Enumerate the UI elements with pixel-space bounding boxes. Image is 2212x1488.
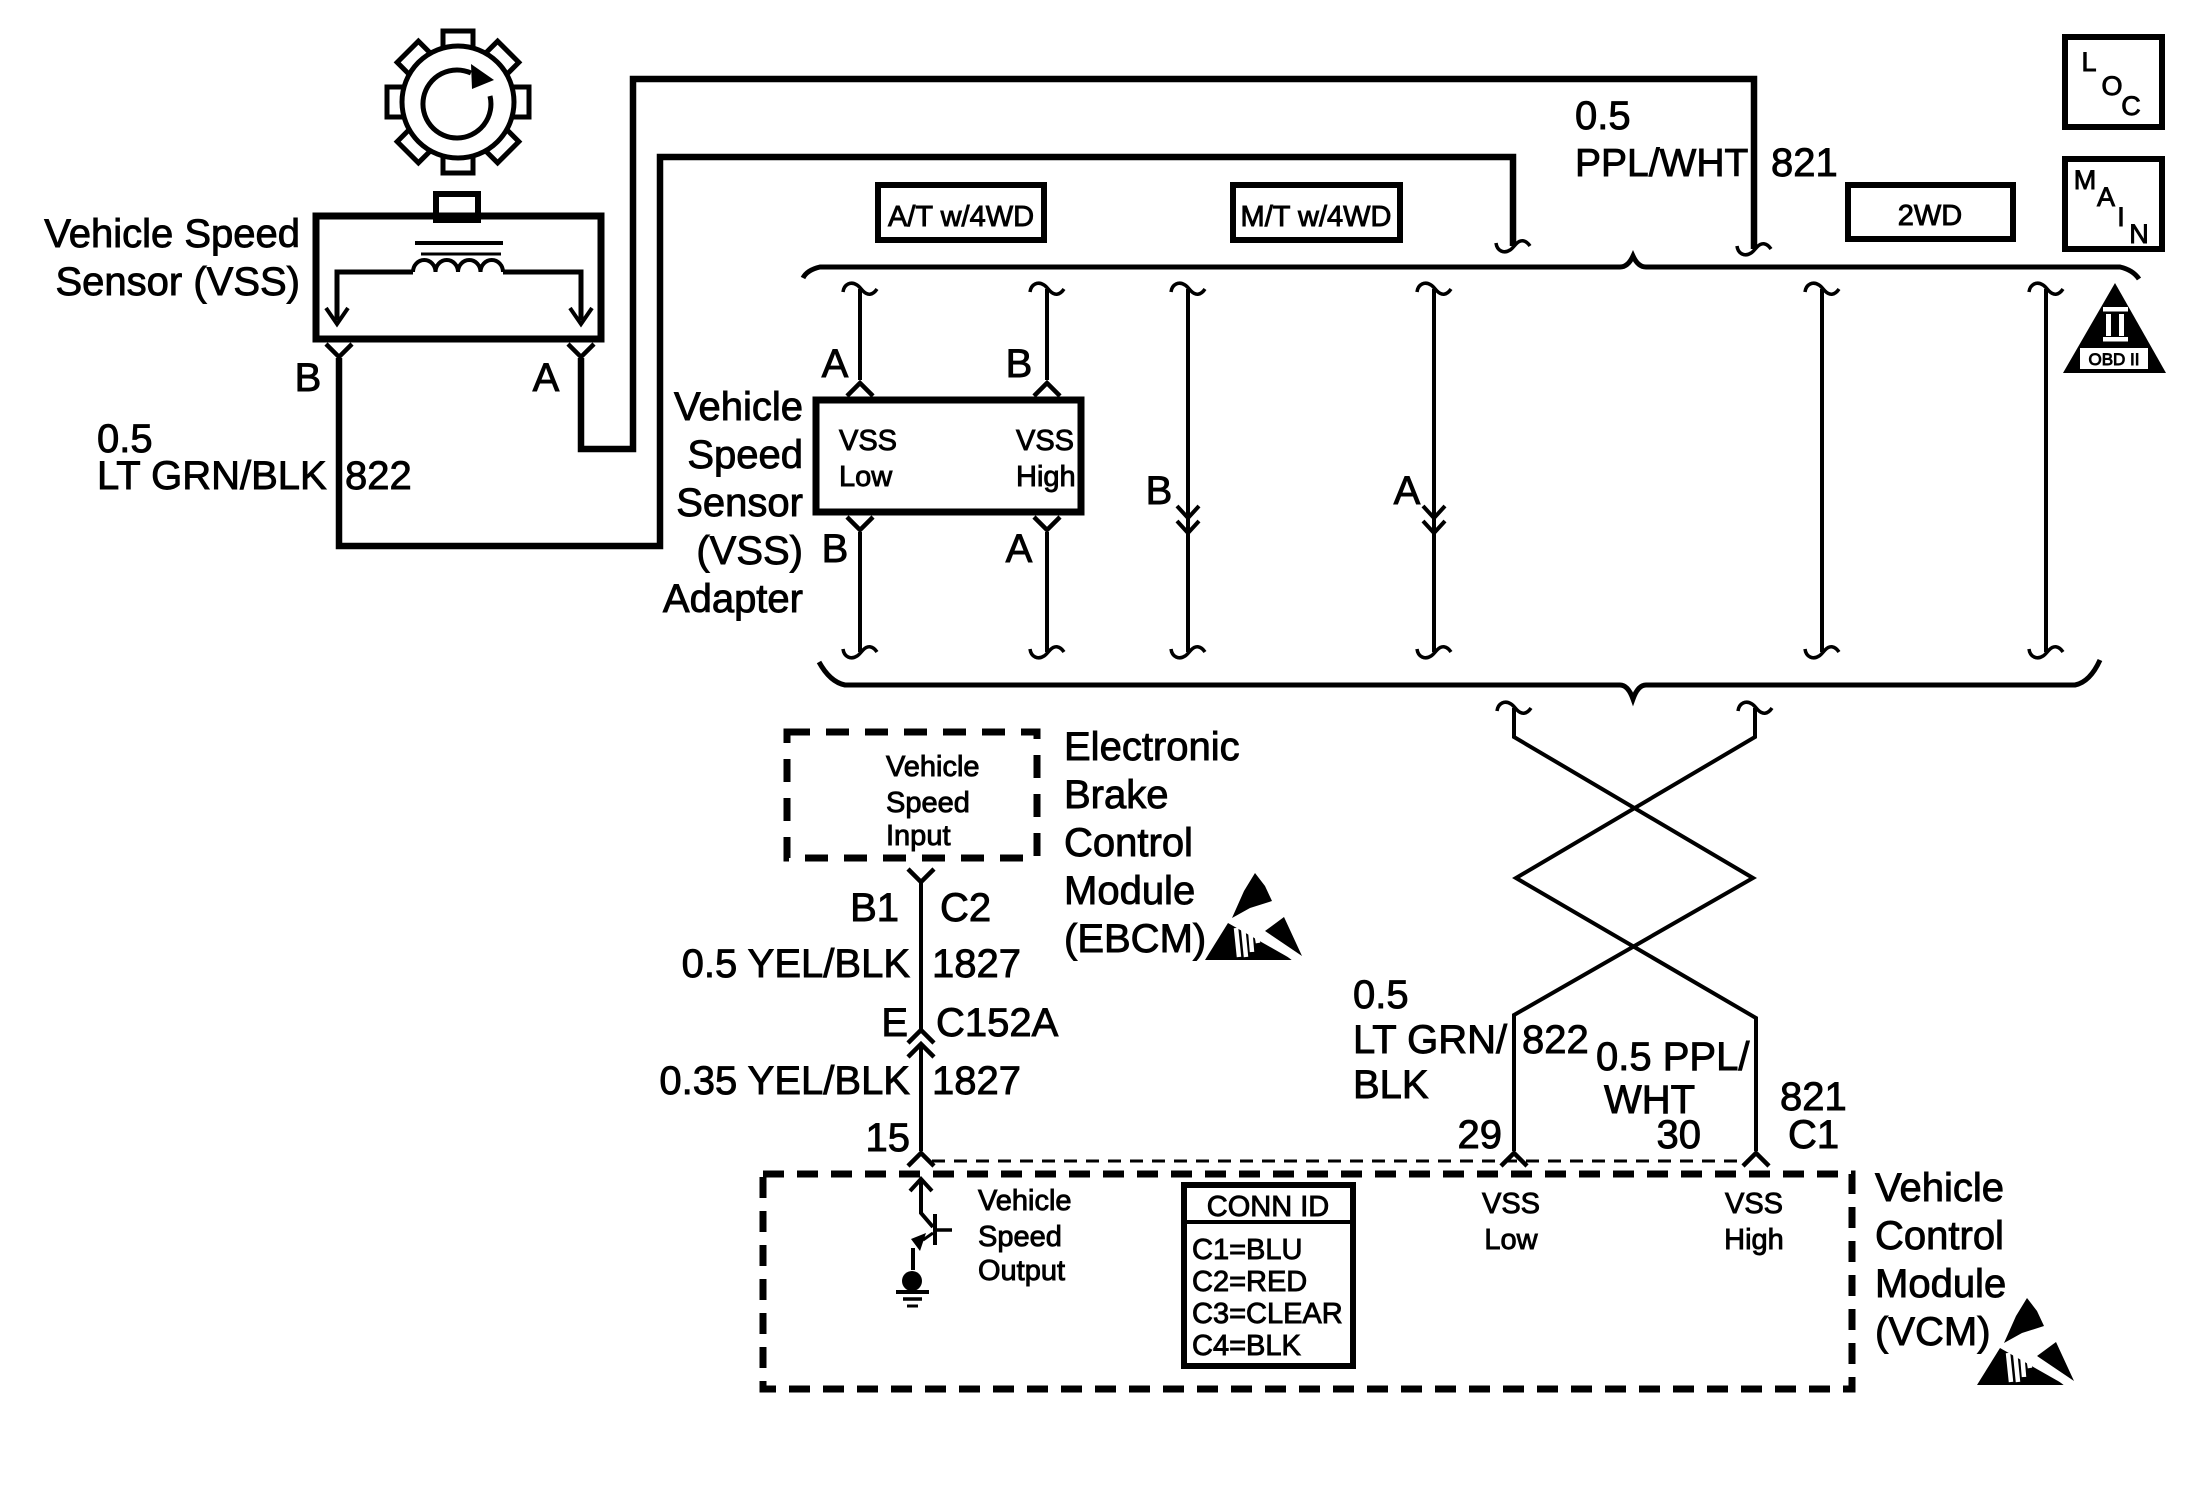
svg-text:B: B bbox=[1006, 342, 1033, 386]
svg-text:30: 30 bbox=[1657, 1113, 1702, 1157]
svg-text:C1=BLU: C1=BLU bbox=[1192, 1234, 1302, 1266]
svg-text:Sensor: Sensor bbox=[676, 481, 803, 525]
svg-text:C: C bbox=[2121, 91, 2141, 121]
svg-text:Vehicle: Vehicle bbox=[886, 751, 980, 783]
svg-text:M: M bbox=[2074, 165, 2097, 195]
svg-text:C4=BLK: C4=BLK bbox=[1192, 1330, 1301, 1362]
svg-text:15: 15 bbox=[866, 1116, 911, 1160]
svg-text:Vehicle Speed: Vehicle Speed bbox=[44, 212, 300, 256]
svg-text:Adapter: Adapter bbox=[663, 577, 803, 621]
svg-text:C2: C2 bbox=[940, 886, 991, 930]
svg-text:VSS: VSS bbox=[1725, 1188, 1783, 1220]
svg-text:High: High bbox=[1724, 1224, 1784, 1256]
svg-text:Speed: Speed bbox=[978, 1221, 1062, 1253]
svg-text:Electronic: Electronic bbox=[1064, 725, 1240, 769]
svg-text:Module: Module bbox=[1064, 869, 1195, 913]
svg-text:B1: B1 bbox=[850, 886, 899, 930]
svg-text:Speed: Speed bbox=[687, 433, 803, 477]
svg-text:Low: Low bbox=[839, 461, 893, 493]
svg-text:VSS: VSS bbox=[839, 425, 897, 457]
svg-text:821: 821 bbox=[1771, 141, 1838, 185]
svg-text:B: B bbox=[295, 356, 322, 400]
svg-text:(VCM): (VCM) bbox=[1875, 1310, 1991, 1354]
svg-text:C2=RED: C2=RED bbox=[1192, 1266, 1307, 1298]
svg-text:0.5: 0.5 bbox=[1353, 973, 1409, 1017]
svg-text:Output: Output bbox=[978, 1255, 1065, 1287]
svg-text:High: High bbox=[1016, 461, 1076, 493]
svg-text:M/T w/4WD: M/T w/4WD bbox=[1241, 201, 1392, 233]
svg-text:VSS: VSS bbox=[1016, 425, 1074, 457]
svg-text:L: L bbox=[2081, 47, 2096, 77]
svg-text:0.5: 0.5 bbox=[1575, 94, 1631, 138]
svg-text:LT GRN/: LT GRN/ bbox=[1353, 1018, 1508, 1062]
svg-text:N: N bbox=[2129, 219, 2149, 249]
svg-text:0.35 YEL/BLK: 0.35 YEL/BLK bbox=[659, 1059, 910, 1103]
svg-text:C3=CLEAR: C3=CLEAR bbox=[1192, 1298, 1343, 1330]
svg-text:Brake: Brake bbox=[1064, 773, 1169, 817]
svg-text:I: I bbox=[2117, 202, 2125, 232]
svg-text:B: B bbox=[822, 527, 849, 571]
svg-text:PPL/WHT: PPL/WHT bbox=[1575, 142, 1748, 185]
svg-text:Vehicle: Vehicle bbox=[978, 1185, 1072, 1217]
svg-text:A: A bbox=[533, 356, 560, 400]
svg-text:O: O bbox=[2101, 71, 2122, 101]
svg-text:A: A bbox=[2097, 182, 2115, 212]
svg-text:(VSS): (VSS) bbox=[696, 529, 803, 573]
svg-text:Control: Control bbox=[1064, 821, 1193, 865]
svg-text:0.5 YEL/BLK: 0.5 YEL/BLK bbox=[682, 942, 911, 986]
svg-text:(EBCM): (EBCM) bbox=[1064, 917, 1206, 961]
svg-text:Control: Control bbox=[1875, 1214, 2004, 1258]
svg-text:Module: Module bbox=[1875, 1262, 2006, 1306]
svg-text:LT GRN/BLK: LT GRN/BLK bbox=[97, 454, 327, 498]
svg-text:OBD II: OBD II bbox=[2088, 350, 2139, 369]
svg-text:Sensor (VSS): Sensor (VSS) bbox=[55, 260, 300, 304]
svg-text:Low: Low bbox=[1484, 1224, 1538, 1256]
svg-text:Vehicle: Vehicle bbox=[1875, 1166, 2004, 1210]
svg-text:2WD: 2WD bbox=[1898, 200, 1962, 232]
svg-text:1827: 1827 bbox=[932, 1059, 1021, 1103]
svg-text:A: A bbox=[1394, 469, 1421, 513]
svg-text:C1: C1 bbox=[1788, 1113, 1839, 1157]
svg-text:A: A bbox=[1006, 527, 1033, 571]
svg-text:1827: 1827 bbox=[932, 942, 1021, 986]
svg-text:CONN ID: CONN ID bbox=[1207, 1191, 1329, 1223]
svg-text:Speed: Speed bbox=[886, 787, 970, 819]
svg-text:29: 29 bbox=[1458, 1113, 1503, 1157]
svg-text:A/T w/4WD: A/T w/4WD bbox=[888, 201, 1034, 233]
svg-text:BLK: BLK bbox=[1353, 1063, 1429, 1107]
svg-text:822: 822 bbox=[1522, 1018, 1589, 1062]
svg-text:C152A: C152A bbox=[936, 1001, 1059, 1045]
svg-text:VSS: VSS bbox=[1482, 1188, 1540, 1220]
svg-text:A: A bbox=[822, 342, 849, 386]
svg-text:0.5 PPL/: 0.5 PPL/ bbox=[1596, 1035, 1750, 1079]
svg-text:822: 822 bbox=[345, 454, 412, 498]
svg-text:E: E bbox=[881, 1001, 908, 1045]
svg-text:Input: Input bbox=[886, 820, 951, 852]
svg-text:Vehicle: Vehicle bbox=[674, 385, 803, 429]
svg-text:B: B bbox=[1146, 469, 1173, 513]
